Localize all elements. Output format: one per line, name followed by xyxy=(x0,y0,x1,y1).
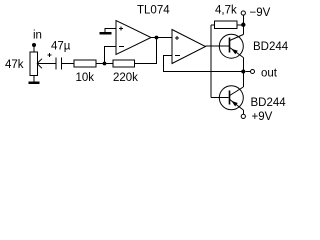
node -9V junction xyxy=(241,23,245,27)
node A (inverting input net junction) xyxy=(103,62,107,66)
svg-text:TL074: TL074 xyxy=(137,5,170,17)
svg-text:BD244: BD244 xyxy=(251,97,287,109)
resistor 10k xyxy=(74,60,96,67)
wire node A up to op-amp U1A inverting input xyxy=(105,47,117,64)
wire up to -9V terminal xyxy=(242,15,244,23)
polarity plus sign of C1 xyxy=(47,54,51,56)
svg-text:47µ: 47µ xyxy=(51,41,71,53)
minus sign U1B xyxy=(175,55,180,57)
ground (U1A + input) xyxy=(99,32,111,35)
svg-text:out: out xyxy=(261,68,278,80)
resistor 220k (feedback) xyxy=(113,60,135,67)
Q1 base bar xyxy=(229,38,231,53)
svg-text:BD244: BD244 xyxy=(253,41,289,53)
Q2 base bar xyxy=(229,91,231,105)
potentiometer P1 47k body xyxy=(30,52,37,76)
base rail (4,7k to both bases) xyxy=(210,25,212,98)
wire Q1 emitter to out node and Q2 collector rail xyxy=(242,58,244,88)
svg-text:4,7k: 4,7k xyxy=(215,5,237,17)
plus sign U1A xyxy=(119,28,123,30)
wire 10k to node A xyxy=(96,63,113,65)
Q1 collector xyxy=(230,35,244,41)
wire U1B output to transistor bases xyxy=(206,45,230,47)
transistor Q1 BD244 (top) circle xyxy=(219,34,243,58)
resistor 4,7k xyxy=(211,24,214,26)
svg-text:10k: 10k xyxy=(76,72,95,84)
transistor Q2 BD244 (bottom) circle xyxy=(219,86,243,110)
svg-text:220k: 220k xyxy=(113,72,138,84)
svg-text:−9V: −9V xyxy=(250,7,271,19)
minus sign U1A xyxy=(119,46,124,48)
terminal +9V xyxy=(241,114,245,118)
op-amp U1B triangle xyxy=(172,30,206,64)
node out xyxy=(241,70,245,74)
wire 4,7k to -9V node xyxy=(237,24,244,26)
wire base rail to Q2 base xyxy=(211,97,229,99)
wiper arrow of potentiometer xyxy=(37,63,56,65)
op-amp U1A triangle xyxy=(116,21,151,55)
svg-text:47k: 47k xyxy=(5,59,24,71)
Q1 emitter with arrow xyxy=(230,48,244,58)
node U1A output xyxy=(155,36,159,40)
svg-text:in: in xyxy=(33,30,42,42)
plus sign U1B xyxy=(175,37,179,39)
wire Q2 emitter to +9V terminal xyxy=(242,110,244,114)
terminal out xyxy=(251,70,255,74)
Q2 emitter with arrow xyxy=(230,100,244,111)
wire U1A output to U1B + input xyxy=(151,37,172,39)
capacitor C1 plates xyxy=(55,58,57,70)
wire C1 to R 10k xyxy=(62,63,75,65)
wire in-dot to potentiometer top xyxy=(33,45,35,52)
wire U1B inverting input feedback from out xyxy=(164,56,244,72)
terminal -9V xyxy=(241,11,245,15)
wire U1A non-inverting input to ground xyxy=(105,29,116,33)
Q2 collector xyxy=(230,87,244,96)
wire out node to out terminal xyxy=(245,71,250,73)
wire potentiometer bottom to ground xyxy=(33,76,35,83)
svg-text:+9V: +9V xyxy=(252,111,273,123)
wire 220k to U1A output xyxy=(134,38,156,64)
ground (pot) xyxy=(29,81,40,84)
